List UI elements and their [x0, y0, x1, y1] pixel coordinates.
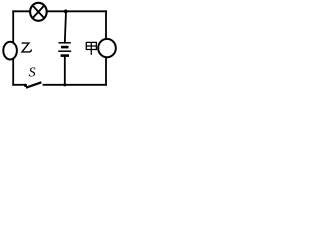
meter jia (ammeter circle) — [98, 39, 116, 57]
wire right side upper — [105, 10, 107, 39]
meter yi (ammeter circle) — [3, 42, 17, 60]
battery cell 1 long plate — [59, 42, 71, 44]
switch terminal dot — [24, 84, 27, 87]
switch S lever — [26, 82, 41, 87]
label jia (Chinese char) — [86, 42, 96, 54]
node junction dot top (battery tap) — [64, 10, 68, 14]
wire left side upper — [12, 10, 14, 43]
wire right side lower — [105, 57, 107, 86]
battery cell 1 short plate — [61, 46, 69, 49]
wire top-left segment — [12, 10, 30, 12]
svg-text:S: S — [29, 66, 36, 81]
wire battery branch lower — [64, 56, 66, 86]
battery cell 2 long plate — [58, 50, 71, 52]
wire left side lower — [12, 58, 14, 85]
battery cell 2 short plate — [61, 54, 69, 57]
wire bottom-right segment — [43, 84, 107, 86]
node junction dot bottom — [63, 83, 66, 86]
lamp (circle with X) — [30, 3, 47, 21]
label yi (Chinese char) — [22, 43, 32, 52]
wire top-right segment — [47, 10, 107, 12]
wire battery branch upper — [65, 11, 66, 42]
wire bottom-left segment — [12, 84, 25, 86]
